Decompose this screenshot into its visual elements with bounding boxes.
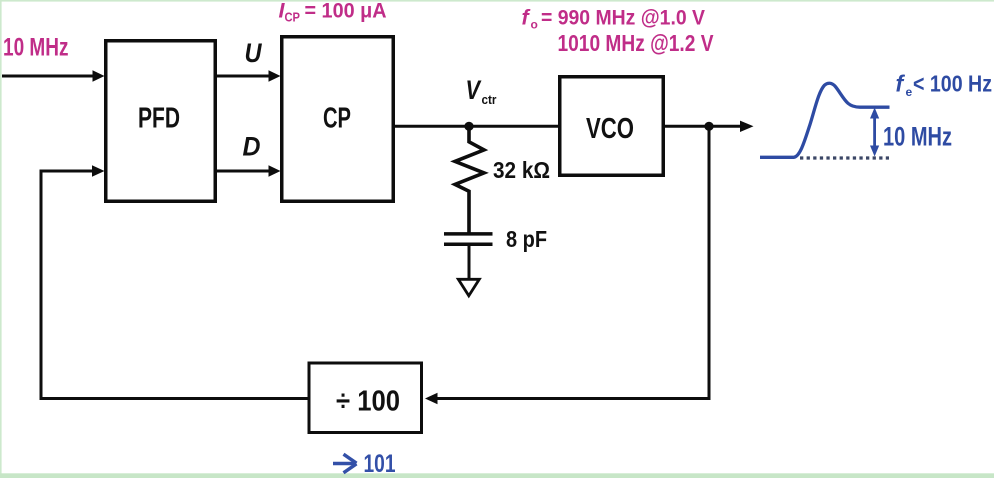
svg-text:101: 101 [364,450,396,478]
node: settled error label fe < 100 Hz [896,71,993,99]
svg-text:10 MHz: 10 MHz [3,34,69,62]
capacitor C1 8 pF [444,234,493,280]
block VCO [560,77,664,176]
svg-text:e: e [906,85,913,99]
svg-text:D: D [243,132,261,162]
ground [458,279,479,296]
svg-text:PFD: PFD [138,103,180,135]
block PFD [106,41,216,202]
svg-text:1010 MHz @1.2 V: 1010 MHz @1.2 V [558,30,715,56]
svg-text:U: U [245,38,263,68]
node: VCO tuning label fo = 990 MHz @1.0 V [522,5,706,31]
wire: feedback vertical right [708,126,711,400]
wire: reference input into PFD [2,70,105,81]
svg-text:32 kΩ: 32 kΩ [493,157,550,183]
svg-text:8 pF: 8 pF [506,226,547,252]
node: frequency step arrow [870,108,879,157]
svg-text:= 990 MHz @1.0 V: = 990 MHz @1.0 V [541,5,706,29]
wire: VCO output [664,121,754,132]
svg-text:o: o [531,18,538,32]
wire: D output PFD to CP [217,165,281,176]
resistor R1 32 kOhm [455,126,484,233]
node: annotation arrow to 101 [333,450,396,478]
wire: feedback into divider [425,393,711,404]
block CP (charge pump) [282,37,394,202]
waveform: VCO settling response [760,83,890,157]
svg-text:÷ 100: ÷ 100 [336,386,400,418]
wire: feedback vertical left [40,170,43,400]
svg-text:CP: CP [285,11,301,25]
wire: U output PFD to CP [217,70,281,81]
svg-text:CP: CP [323,103,351,135]
svg-text:= 100 μA: = 100 μA [305,0,387,23]
block divider /100 [309,363,422,433]
svg-text:ctr: ctr [482,92,497,107]
node: label Vctr [466,75,497,107]
svg-text:10 MHz: 10 MHz [883,121,952,151]
wire: dotted baseline of waveform [800,156,889,159]
svg-text:V: V [466,75,482,105]
node: Vctr junction dot [464,122,473,131]
svg-text:< 100 Hz: < 100 Hz [913,71,992,97]
wire: CP output to VCO input [393,125,559,128]
wire: divider output left [40,397,310,400]
node: VCO output junction dot [704,122,713,131]
svg-text:VCO: VCO [586,113,634,145]
node: charge pump current label ICP = 100 uA [279,0,387,25]
wire: feedback into PFD [40,165,105,176]
